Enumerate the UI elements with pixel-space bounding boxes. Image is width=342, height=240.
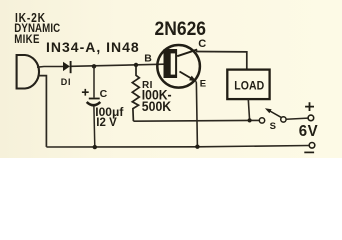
svg-text:I2 V: I2 V — [96, 117, 117, 129]
svg-text:E: E — [200, 79, 206, 90]
svg-text:IN34-A, IN48: IN34-A, IN48 — [46, 39, 140, 55]
svg-text:S: S — [270, 121, 276, 132]
switch S — [259, 118, 264, 123]
transistor collector lead — [177, 50, 197, 57]
wire: bottom rail — [46, 146, 309, 148]
capacitor plus sign — [82, 89, 89, 96]
wire: emitter down to bottom rail — [196, 82, 197, 147]
svg-text:C: C — [198, 38, 206, 50]
transistor Q1 circle — [157, 45, 200, 88]
wire: LOAD bottom to switch wire — [248, 99, 249, 120]
svg-text:2N626: 2N626 — [155, 17, 207, 39]
node: junction dot LOAD/switch wire — [248, 118, 252, 122]
node: junction dot emitter/rail — [195, 145, 199, 149]
wire: mike top lead to diode — [37, 66, 63, 69]
svg-text:500K: 500K — [142, 98, 172, 114]
wire: mike bottom lead down to rail — [38, 76, 47, 147]
wire: switch to battery plus terminal — [286, 118, 308, 119]
wire: capacitor lower lead — [93, 106, 96, 147]
transistor emitter lead with arrow — [180, 72, 197, 82]
capacitor C plates — [89, 98, 100, 100]
microphone MIC — [17, 55, 39, 89]
svg-text:MIKE: MIKE — [14, 33, 39, 46]
svg-text:C: C — [100, 88, 108, 100]
node: junction dot capacitor/top wire — [92, 64, 96, 68]
diode D1 — [63, 62, 70, 71]
resistor R1 — [132, 65, 139, 121]
battery plus terminal — [308, 115, 314, 121]
svg-text:6V: 6V — [299, 123, 319, 140]
LOAD box — [227, 70, 269, 100]
wire: diode to transistor base — [72, 64, 164, 66]
svg-text:B: B — [144, 52, 152, 64]
battery minus terminal — [309, 143, 315, 149]
wire: capacitor upper lead — [93, 66, 95, 97]
wire: R1 bottom / switch wire — [133, 119, 259, 122]
svg-text:LOAD: LOAD — [234, 80, 264, 93]
node: junction dot resistor/top wire — [134, 63, 138, 67]
wire: collector to LOAD — [196, 52, 247, 70]
transistor Q1 base bar — [164, 49, 178, 78]
node: junction dot capacitor/rail — [93, 145, 97, 149]
svg-text:DI: DI — [61, 77, 71, 87]
